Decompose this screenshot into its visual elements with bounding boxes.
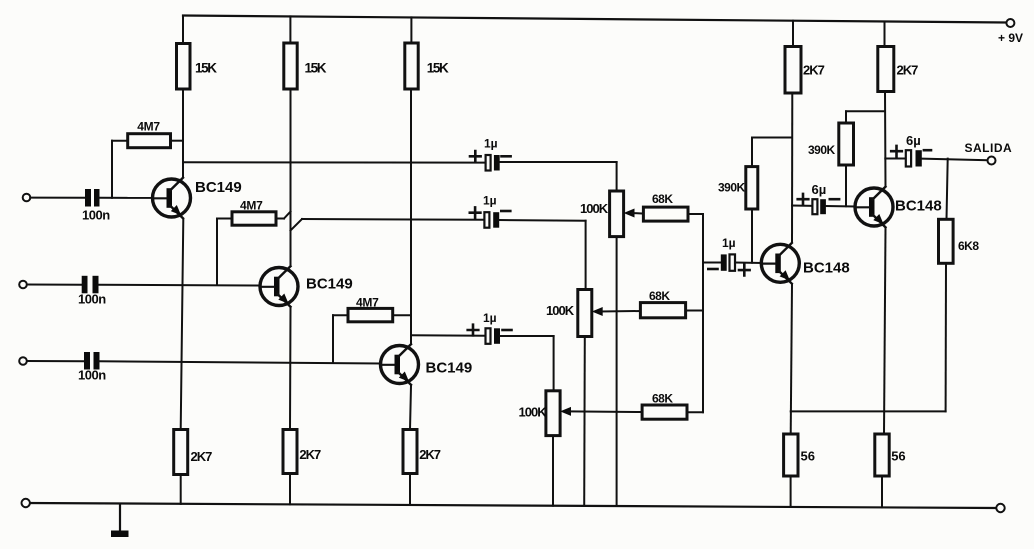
minus sign (C6) <box>503 329 512 332</box>
wire: C8 to Q5 base <box>826 205 855 208</box>
resistor R9 2K7 <box>403 430 417 474</box>
transistor Q1 BC149 <box>153 178 191 219</box>
wire: R5 to collector node <box>276 218 284 220</box>
plus sign (C9) <box>891 146 902 157</box>
capacitor C6 1u <box>486 328 491 344</box>
wire: C1 to Q1 base <box>100 197 154 199</box>
bottom-left terminal <box>22 499 30 507</box>
svg-text:56: 56 <box>891 449 905 464</box>
P3 wiper arrow <box>560 407 571 416</box>
minus sign (C5) <box>501 210 510 213</box>
wire: C6 to P3 top <box>500 335 554 337</box>
svg-text:390K: 390K <box>718 181 746 195</box>
wire: R11 bottom to Q5 collector <box>884 92 887 187</box>
transistor Q5 BC148 <box>855 187 893 228</box>
resistor R4 4M7 <box>128 134 171 148</box>
wire: C5 to P2 top <box>499 219 585 222</box>
ground rail (bottom) <box>26 503 996 508</box>
svg-text:68K: 68K <box>652 192 673 206</box>
resistor R15 390K <box>746 167 758 209</box>
wire: output node down to R19 <box>947 159 948 220</box>
svg-text:68K: 68K <box>649 289 670 303</box>
input 3 terminal <box>19 357 27 365</box>
wire: Q5 collector to C9 <box>885 158 906 160</box>
potentiometer P2 100K <box>578 290 592 337</box>
resistor R13 68K <box>640 303 685 318</box>
resistor R7 2K7 <box>174 430 188 475</box>
capacitor C5 1u <box>484 212 489 228</box>
svg-text:2K7: 2K7 <box>803 63 825 78</box>
plus sign (C4) <box>470 151 481 162</box>
wire: R3 bottom to Q3 collector <box>410 89 412 344</box>
mix bus vertical <box>702 214 704 412</box>
svg-text:+ 9V: + 9V <box>998 31 1023 45</box>
wire: Q2 collector output line <box>291 219 303 231</box>
wire: R12 to mix bus <box>688 213 703 215</box>
wire: Q1 collector output line <box>183 161 486 163</box>
transistor Q4 BC148 <box>761 243 799 284</box>
plus sign (C7) <box>739 265 750 276</box>
capacitor C7 1u <box>721 254 727 270</box>
svg-text:6K8: 6K8 <box>958 239 979 253</box>
resistor R2 15K <box>284 43 297 89</box>
wire: Q2 emitter down to R8 <box>289 308 292 430</box>
resistor R17 56 <box>784 434 798 476</box>
svg-text:1µ: 1µ <box>483 194 497 208</box>
wire: C3 to Q3 base <box>100 361 381 363</box>
svg-text:100K: 100K <box>519 405 548 420</box>
svg-text:1µ: 1µ <box>722 236 736 250</box>
svg-text:4M7: 4M7 <box>240 199 263 213</box>
wire: input3 to C3 <box>27 360 84 362</box>
minus sign (C4) <box>502 155 511 158</box>
wire: Q5 emitter down to R18 <box>884 228 886 434</box>
wire: Q4 collector to C8 <box>792 205 812 207</box>
svg-text:15K: 15K <box>427 61 449 76</box>
resistor R18 56 <box>875 434 889 476</box>
minus sign (C8) <box>830 198 839 201</box>
ground <box>119 504 121 531</box>
svg-text:BC149: BC149 <box>195 179 242 196</box>
wire: R1 bottom to Q1 collector <box>182 89 184 177</box>
minus sign (C9) <box>924 149 931 152</box>
capacitor C8 6u <box>812 199 817 214</box>
feedback bus wire <box>791 410 946 412</box>
transistor Q2 BC149 <box>260 266 298 307</box>
resistor R8 2K7 <box>283 430 297 474</box>
svg-text:100K: 100K <box>580 201 609 216</box>
svg-text:BC149: BC149 <box>306 276 353 293</box>
resistor R19 6K8 <box>939 219 954 263</box>
resistor R11 2K7 <box>878 47 894 92</box>
resistor R5 4M7 <box>232 212 276 225</box>
wire: R17 to ground rail <box>790 476 792 507</box>
svg-text:6µ: 6µ <box>812 182 827 197</box>
svg-text:2K7: 2K7 <box>191 449 213 464</box>
wire: R15 bottom leg to base node <box>751 209 753 263</box>
wire: C4 to P1 top <box>500 161 617 163</box>
wire: R7 to ground rail <box>180 475 182 504</box>
wire: C7 to Q4 base <box>735 262 762 265</box>
wire: Q3 emitter down to R9 <box>410 386 411 430</box>
SALIDA terminal <box>988 157 996 165</box>
wire: rail to R2 top <box>289 16 291 43</box>
svg-text:100n: 100n <box>78 368 106 383</box>
svg-text:100K: 100K <box>546 303 575 318</box>
resistor R12 68K <box>643 207 688 221</box>
wire: R19 bottom to feedback bus <box>945 263 947 411</box>
wire: R18 to ground rail <box>881 476 883 507</box>
wire: P2 bottom to ground rail <box>583 337 586 506</box>
wire: node to R4 <box>111 141 113 198</box>
wire: R16 top to Q5 collector node <box>845 111 847 123</box>
wire: mix bus to C7 <box>703 262 721 264</box>
resistor R1 15K <box>177 44 191 90</box>
svg-text:2K7: 2K7 <box>419 447 441 462</box>
svg-text:2K7: 2K7 <box>897 63 919 78</box>
resistor R14 68K <box>642 405 687 419</box>
bottom-right terminal <box>996 504 1004 512</box>
wire: input2 to C2 <box>27 284 82 286</box>
potentiometer P1 100K <box>610 191 624 237</box>
resistor R3 15K <box>405 43 418 89</box>
svg-text:SALIDA: SALIDA <box>965 141 1013 155</box>
svg-text:15K: 15K <box>305 61 327 76</box>
P1 wiper arrow <box>624 209 635 218</box>
transistor Q3 BC149 <box>381 344 419 385</box>
capacitor C9 6u <box>906 150 911 166</box>
wire: R14 to mix bus <box>687 411 703 413</box>
svg-text:BC148: BC148 <box>803 260 850 277</box>
svg-text:BC148: BC148 <box>895 198 942 215</box>
plus sign (C5) <box>470 207 481 218</box>
minus sign (C7) <box>708 268 717 271</box>
capacitor C3 100n <box>84 352 90 370</box>
svg-text:BC149: BC149 <box>426 360 473 377</box>
svg-text:100n: 100n <box>82 208 110 223</box>
resistor R10 2K7 <box>785 47 801 94</box>
P2 wiper arrow <box>592 307 603 316</box>
wire: C9 to SALIDA <box>922 159 988 161</box>
wire: R15 top to Q4 collector node <box>751 138 753 167</box>
wire: R8 to ground rail <box>289 474 291 505</box>
wire: rail to R3 top <box>410 17 412 43</box>
svg-text:56: 56 <box>801 449 815 464</box>
wire: R16 bottom leg to base node <box>845 165 847 206</box>
resistor R6 4M7 <box>348 308 393 321</box>
input 1 terminal <box>23 194 31 202</box>
wire: node to R5 <box>216 219 218 286</box>
wire: rail to R1 top <box>182 16 184 44</box>
wire: rail to R11 top <box>884 22 886 47</box>
capacitor C2 100n <box>82 276 88 294</box>
wire: R6 to collector node <box>393 314 411 316</box>
wire: R13 to mix bus <box>686 310 703 312</box>
svg-text:4M7: 4M7 <box>137 120 160 134</box>
svg-text:2K7: 2K7 <box>299 447 321 462</box>
input 2 terminal <box>19 281 27 289</box>
capacitor C1 100n <box>85 189 91 207</box>
svg-text:1µ: 1µ <box>484 137 498 151</box>
svg-text:15K: 15K <box>195 61 217 76</box>
+9V rail <box>183 16 1006 23</box>
wire: P1 bottom to ground rail <box>616 237 618 506</box>
svg-text:4M7: 4M7 <box>356 296 379 310</box>
wire: input1 to C1 <box>30 197 85 199</box>
resistor R16 390K <box>839 123 854 165</box>
wire: R9 to ground rail <box>409 474 411 506</box>
wire: rail to R10 top <box>792 21 794 47</box>
capacitor C4 1u <box>486 155 491 171</box>
svg-text:100n: 100n <box>78 292 106 307</box>
wire: R4 to collector node <box>171 140 184 142</box>
wire: R10 bottom to Q4 collector <box>791 93 793 242</box>
+9V terminal <box>1006 19 1014 27</box>
wire: Q1 emitter down to R7 <box>181 219 184 429</box>
svg-text:6µ: 6µ <box>906 133 921 148</box>
plus sign (C8) <box>798 194 809 205</box>
plus sign (C6) <box>468 325 479 336</box>
wire: C2 to Q2 base <box>99 284 261 287</box>
svg-text:1µ: 1µ <box>483 311 497 325</box>
wire: Q3 collector output line <box>411 334 486 337</box>
wire: R2 bottom to Q2 collector <box>290 89 292 266</box>
svg-text:68K: 68K <box>652 392 673 406</box>
wire: Q4 emitter down to R17 <box>791 284 792 434</box>
wire: node to R6 <box>332 315 334 363</box>
potentiometer P3 100K <box>546 391 560 436</box>
svg-text:390K: 390K <box>808 143 836 157</box>
wire: P3 bottom to ground rail <box>552 436 554 506</box>
